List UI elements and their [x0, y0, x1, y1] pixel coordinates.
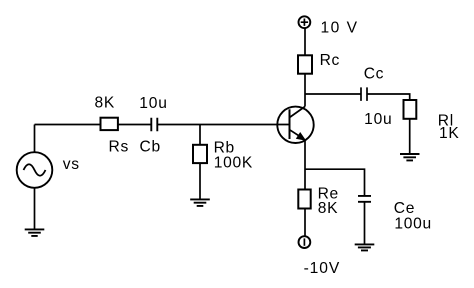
svg-text:8K: 8K — [318, 200, 338, 217]
svg-text:100u: 100u — [394, 215, 432, 232]
svg-text:10u: 10u — [139, 95, 167, 112]
svg-text:-10V: -10V — [304, 260, 341, 277]
svg-text:Cc: Cc — [364, 65, 384, 82]
svg-text:Rs: Rs — [109, 138, 129, 155]
svg-text:Rc: Rc — [320, 52, 340, 69]
svg-text:10 V: 10 V — [321, 20, 359, 37]
svg-text:100K: 100K — [214, 154, 253, 171]
svg-text:10u: 10u — [364, 111, 392, 128]
svg-text:8K: 8K — [95, 95, 115, 112]
svg-text:Cb: Cb — [140, 138, 161, 155]
svg-text:vs: vs — [63, 156, 80, 173]
svg-text:Ce: Ce — [394, 200, 415, 217]
svg-text:1K: 1K — [439, 125, 459, 142]
